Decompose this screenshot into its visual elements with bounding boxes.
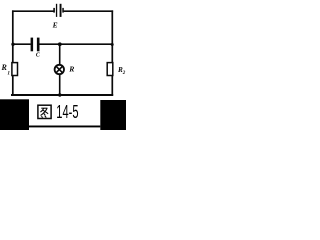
svg-text:C: C	[36, 53, 40, 59]
resistor R2 box	[107, 63, 113, 76]
wire right vertical	[111, 10, 113, 95]
capacitor C plates	[31, 38, 40, 52]
wire middle-left segment (to capacitor)	[13, 43, 31, 45]
caption hanzi "图" (drawn)	[38, 105, 51, 118]
node junction right (middle wire / right wire)	[111, 43, 114, 46]
wire bottom	[11, 94, 113, 96]
wire lamp branch vertical	[59, 44, 61, 95]
resistor R1 box	[12, 63, 18, 76]
node junction left (middle wire / left wire)	[11, 43, 14, 46]
svg-text:2: 2	[122, 71, 126, 76]
wire top-right segment	[64, 10, 114, 12]
node junction lamp-branch bottom	[58, 93, 61, 96]
svg-text:1: 1	[7, 70, 10, 76]
svg-text:E: E	[52, 21, 58, 30]
label R1	[1, 63, 11, 76]
svg-text:14-5: 14-5	[56, 102, 78, 122]
svg-text:R: R	[68, 65, 74, 74]
wire left vertical	[12, 10, 14, 95]
label R2	[117, 66, 126, 76]
battery E plates	[53, 4, 64, 17]
caption band right black block	[100, 100, 126, 130]
caption band left black block	[0, 99, 29, 130]
node junction lamp-branch top	[58, 42, 62, 46]
wire middle-right segment (capacitor to right wire)	[39, 43, 112, 45]
lamp R (circle with X)	[55, 65, 64, 74]
caption band underline between blocks	[29, 126, 100, 128]
wire top-left segment	[12, 10, 54, 12]
